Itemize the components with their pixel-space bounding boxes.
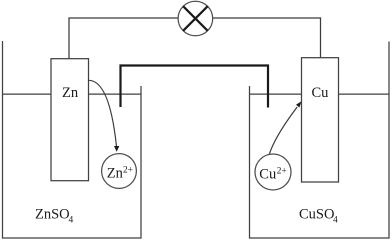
svg-text:Zn: Zn: [62, 85, 79, 101]
svg-text:4: 4: [333, 216, 338, 226]
svg-text:4: 4: [69, 216, 74, 226]
svg-text:Zn: Zn: [107, 165, 124, 181]
svg-text:2+: 2+: [277, 166, 287, 176]
svg-text:Cu: Cu: [259, 167, 276, 183]
svg-text:CuSO: CuSO: [299, 207, 334, 223]
svg-text:Cu: Cu: [312, 85, 329, 101]
svg-text:2+: 2+: [123, 165, 133, 175]
svg-text:ZnSO: ZnSO: [35, 207, 70, 223]
